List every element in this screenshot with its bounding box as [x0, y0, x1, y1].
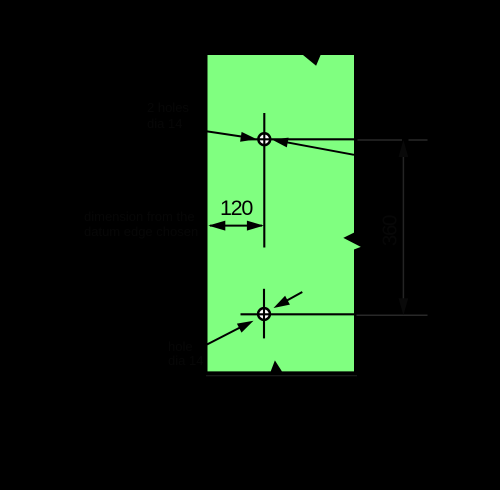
vertical dimension top arrowhead [399, 140, 409, 157]
svg-text:120: 120 [220, 196, 253, 220]
centre line horizontal, hole H2 [241, 313, 355, 315]
dimension 120: line [210, 225, 262, 227]
extension line right of plate, hole H2 [357, 314, 428, 316]
vertical dimension line at right [402, 156, 404, 299]
hole H2 [258, 308, 270, 320]
leader line to hole H1 from upper-left label [170, 126, 243, 137]
dimension 120: left arrowhead [208, 221, 225, 231]
centre line vertical, hole H2 [263, 289, 265, 339]
hole H1 [258, 133, 270, 145]
svg-text:dia 14: dia 14 [168, 353, 203, 368]
dimension 120: right arrowhead [247, 221, 264, 231]
centre line vertical, hole H1 [263, 113, 265, 248]
svg-text:dimension from the: dimension from the [84, 209, 195, 224]
svg-text:dia 14: dia 14 [147, 116, 182, 131]
centre line horizontal, hole H1 [241, 138, 355, 140]
leader arrowhead at hole H2 upper-right [274, 296, 290, 308]
leader tail right of hole H1 [286, 142, 354, 155]
svg-text:2 holes: 2 holes [147, 100, 189, 115]
svg-text:hole: hole [168, 339, 193, 354]
leader arrowhead at hole H1 right [272, 138, 289, 148]
svg-text:datum edge chosen: datum edge chosen [84, 224, 198, 239]
svg-text:360: 360 [379, 215, 402, 246]
vertical dimension bottom arrowhead [399, 298, 409, 315]
plate (green part with break symbols on top, right, bottom edges) [208, 55, 361, 371]
extension line right of plate, hole H1 [358, 139, 403, 141]
leader line to hole H2 from lower-left label [206, 327, 241, 345]
leader tail upper-right of hole H2 [286, 292, 302, 301]
leader arrowhead at hole H2 lower-left [237, 321, 254, 333]
leader arrowhead at hole H1 left [240, 132, 257, 142]
faint bottom outline residue [206, 375, 357, 377]
